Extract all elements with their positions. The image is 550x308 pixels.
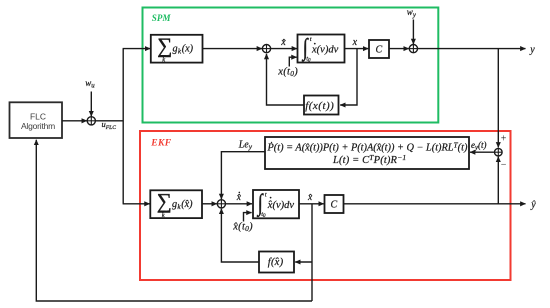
- svg-text:∑: ∑: [157, 33, 172, 57]
- wire f block back to junction 1: [267, 54, 305, 105]
- wire junction wy to output y: [418, 48, 526, 50]
- wire integrator to C: [345, 48, 369, 50]
- wire y branch down to junction ey: [497, 49, 499, 148]
- summing junction EKF: [217, 200, 225, 208]
- block f(x(t)): [304, 96, 339, 115]
- svg-text:SPM: SPM: [152, 13, 172, 23]
- wire w_y into junction: [412, 20, 414, 45]
- wire Ley from equation box into junction 3: [221, 152, 265, 199]
- wire u into EKF sum-of-g block: [123, 203, 150, 205]
- svg-text:t: t: [310, 36, 312, 43]
- wire branch x to f block: [340, 49, 357, 105]
- svg-text:Ley: Ley: [238, 139, 253, 151]
- SPM box: [143, 8, 439, 123]
- block FLC Algorithm: [10, 102, 63, 138]
- wire C to junction wy: [389, 48, 409, 50]
- wire into f(xhat) block: [295, 261, 312, 263]
- svg-text:C: C: [331, 200, 338, 211]
- wire EKF sum block to junction 3: [202, 203, 217, 205]
- block f(xhat): [259, 252, 294, 273]
- block C EKF: [325, 195, 344, 213]
- wire xhat(t0) into integrator: [244, 213, 252, 222]
- block C SPM: [369, 40, 389, 58]
- svg-text:ey(t): ey(t): [471, 140, 487, 152]
- svg-text:f(x̂): f(x̂): [268, 257, 284, 268]
- svg-text:Ṗ(t) = A(x̂(t))P(t) + P(t)A(x: Ṗ(t) = A(x̂(t))P(t) + P(t)A(x̂(t)) + Q …: [267, 141, 468, 154]
- svg-text:+: +: [501, 134, 507, 145]
- svg-text:ŷ: ŷ: [530, 200, 536, 211]
- summing junction ey: [495, 148, 503, 156]
- wire ey into equation box: [470, 151, 495, 153]
- svg-text:EKF: EKF: [150, 137, 171, 148]
- wire branch xhat down: [311, 204, 313, 301]
- summing junction u: [87, 117, 95, 125]
- wire junction u to distribution: [95, 120, 123, 122]
- summing junction SPM: [262, 45, 270, 53]
- block SPM integrator: [298, 33, 345, 63]
- wire EKF integrator to C: [299, 203, 324, 205]
- svg-text:x̂: x̂: [307, 193, 313, 204]
- block EKF sum g_k(xhat): [150, 189, 202, 219]
- block SPM sum g_k(x): [151, 33, 203, 63]
- svg-text:x: x: [352, 37, 358, 48]
- wire w_u into junction u: [90, 92, 92, 117]
- EKF box: [140, 131, 511, 280]
- svg-text:x̂(v)dv: x̂(v)dv: [267, 200, 295, 211]
- svg-text:L(t) = CTP(t)R−1: L(t) = CTP(t)R−1: [332, 153, 406, 166]
- svg-text:∑: ∑: [157, 189, 172, 213]
- svg-text:f(x(t)): f(x(t)): [305, 100, 334, 112]
- wire f(xhat) back to junction 3: [221, 209, 259, 262]
- wire yhat branch up to junction ey: [497, 157, 499, 204]
- wire junction 3 to EKF integrator: [226, 203, 253, 205]
- svg-text:k: k: [162, 57, 165, 64]
- svg-text:x̂(t0): x̂(t0): [232, 222, 253, 234]
- svg-text:gk(x): gk(x): [173, 44, 194, 56]
- wire u into SPM sum-of-g block: [123, 48, 151, 50]
- svg-text:y: y: [529, 44, 535, 55]
- svg-text:x(t0): x(t0): [277, 66, 298, 78]
- svg-text:−: −: [501, 160, 507, 171]
- wire SPM sum block to junction 1: [203, 48, 263, 50]
- svg-text:gk(x̂): gk(x̂): [172, 199, 193, 211]
- svg-text:x: x: [280, 37, 286, 48]
- equation box: [265, 137, 469, 169]
- wire feedback bottom loop to FLC: [36, 140, 312, 301]
- wire FLC to junction u: [62, 120, 87, 122]
- wire distribution vertical: [122, 49, 124, 204]
- wire C to output yhat: [344, 203, 526, 205]
- svg-text:x(v)dv: x(v)dv: [311, 44, 339, 55]
- svg-text:Algorithm: Algorithm: [21, 121, 55, 131]
- svg-text:t: t: [265, 192, 267, 199]
- svg-text:C: C: [376, 45, 383, 56]
- summing junction wy: [409, 45, 417, 53]
- svg-text:k: k: [162, 212, 165, 219]
- wire junction 1 to integrator: [271, 48, 297, 50]
- block EKF integrator: [253, 189, 299, 219]
- svg-text:x̂: x̂: [236, 193, 242, 204]
- wire x(t0) into integrator: [289, 57, 296, 66]
